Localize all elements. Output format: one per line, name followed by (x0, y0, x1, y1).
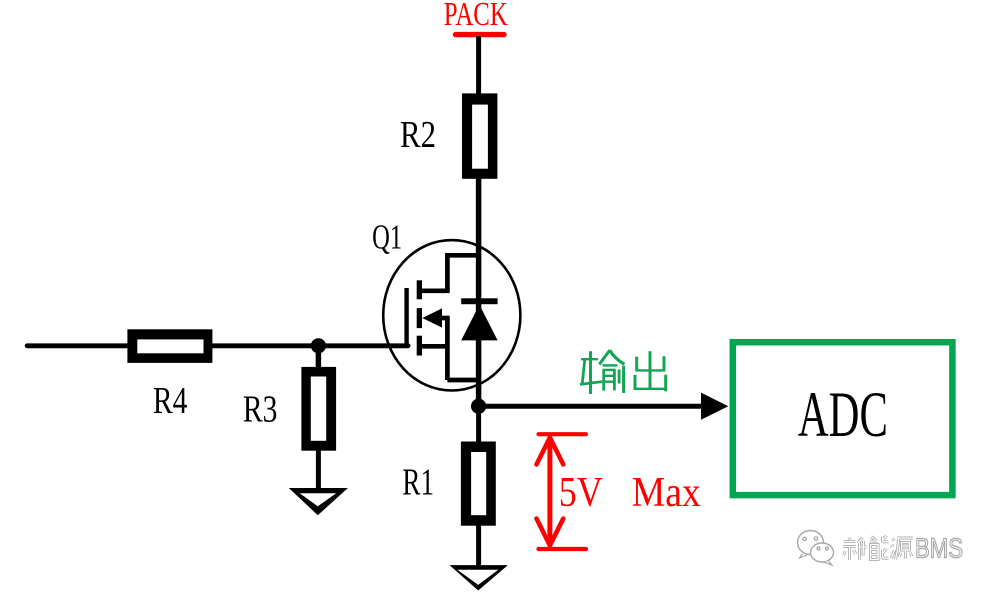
svg-text:PACK: PACK (444, 0, 508, 33)
svg-text:Max: Max (632, 470, 701, 516)
wire PACK to R2 (476, 36, 481, 95)
Q1 drain lead (419, 255, 478, 290)
watermark char 源 (891, 538, 913, 560)
watermark char 能 (870, 536, 889, 560)
resistor R4 (127, 329, 212, 363)
Q1 source lead (419, 346, 478, 380)
watermark char 新 (843, 538, 867, 561)
watermark icon big bubble (798, 531, 824, 555)
svg-text:Q1: Q1 (372, 218, 402, 257)
node output junction dot (471, 399, 486, 414)
wire R2 to drain junction (through Q1 body diode branch) (476, 177, 482, 408)
top tick bar (539, 432, 587, 436)
svg-text:ADC: ADC (798, 379, 888, 451)
出 char (649, 351, 652, 389)
vertical shaft (547, 437, 552, 546)
输 char : 俞 roof (599, 350, 610, 364)
svg-text:5V: 5V (559, 470, 603, 516)
svg-text:R2: R2 (400, 114, 436, 156)
node junction dot (gate / R3) (311, 338, 326, 353)
transistor Q1 (NMOS with body diode) (383, 240, 520, 390)
wire gate input (left rail) (27, 343, 408, 348)
up arrowhead (537, 438, 564, 465)
resistor R2 (462, 93, 497, 178)
输 char : 月 (602, 370, 605, 391)
down arrowhead (537, 519, 564, 546)
Q1 channel segment (body) (417, 308, 422, 328)
PACK power rail bar (456, 32, 505, 37)
wire R3 to ground (316, 449, 321, 490)
Q1 body circle (383, 240, 520, 390)
wire junction to R3 (316, 346, 322, 370)
ADC block box (733, 342, 953, 495)
svg-text:R4: R4 (153, 380, 188, 422)
svg-text:BMS: BMS (915, 533, 963, 564)
Q1 body arrow (422, 308, 442, 327)
Q1 channel segment (drain side) (417, 280, 422, 299)
svg-text:R1: R1 (402, 462, 434, 504)
resistor R1 (461, 442, 496, 526)
Q1 channel segment (source side) (417, 336, 422, 356)
Q1 body lead (441, 316, 450, 321)
wire R1 to ground (476, 524, 481, 567)
输 char : 车 radical (581, 358, 598, 360)
label 输出 (output, hand-drawn glyphs) (580, 350, 667, 394)
wire output to ADC (479, 404, 703, 409)
resistor R3 (301, 367, 336, 451)
ground (below R3) (289, 488, 348, 515)
watermark logo (WeChat icon + 新能源BMS) (798, 531, 964, 566)
arrowhead into ADC (701, 393, 728, 420)
ground (below R1) (450, 565, 508, 590)
bottom tick bar (539, 547, 587, 551)
输 char : 刂 (618, 370, 621, 384)
dimension arrow 5V max (red) (537, 434, 587, 549)
wire junction to R1 (476, 406, 481, 444)
Q1 body diode cathode bar (461, 298, 497, 304)
svg-text:R3: R3 (243, 389, 278, 431)
Q1 gate bar (404, 288, 408, 348)
watermark icon small bubble (811, 543, 834, 562)
Q1 body diode triangle (461, 305, 497, 341)
